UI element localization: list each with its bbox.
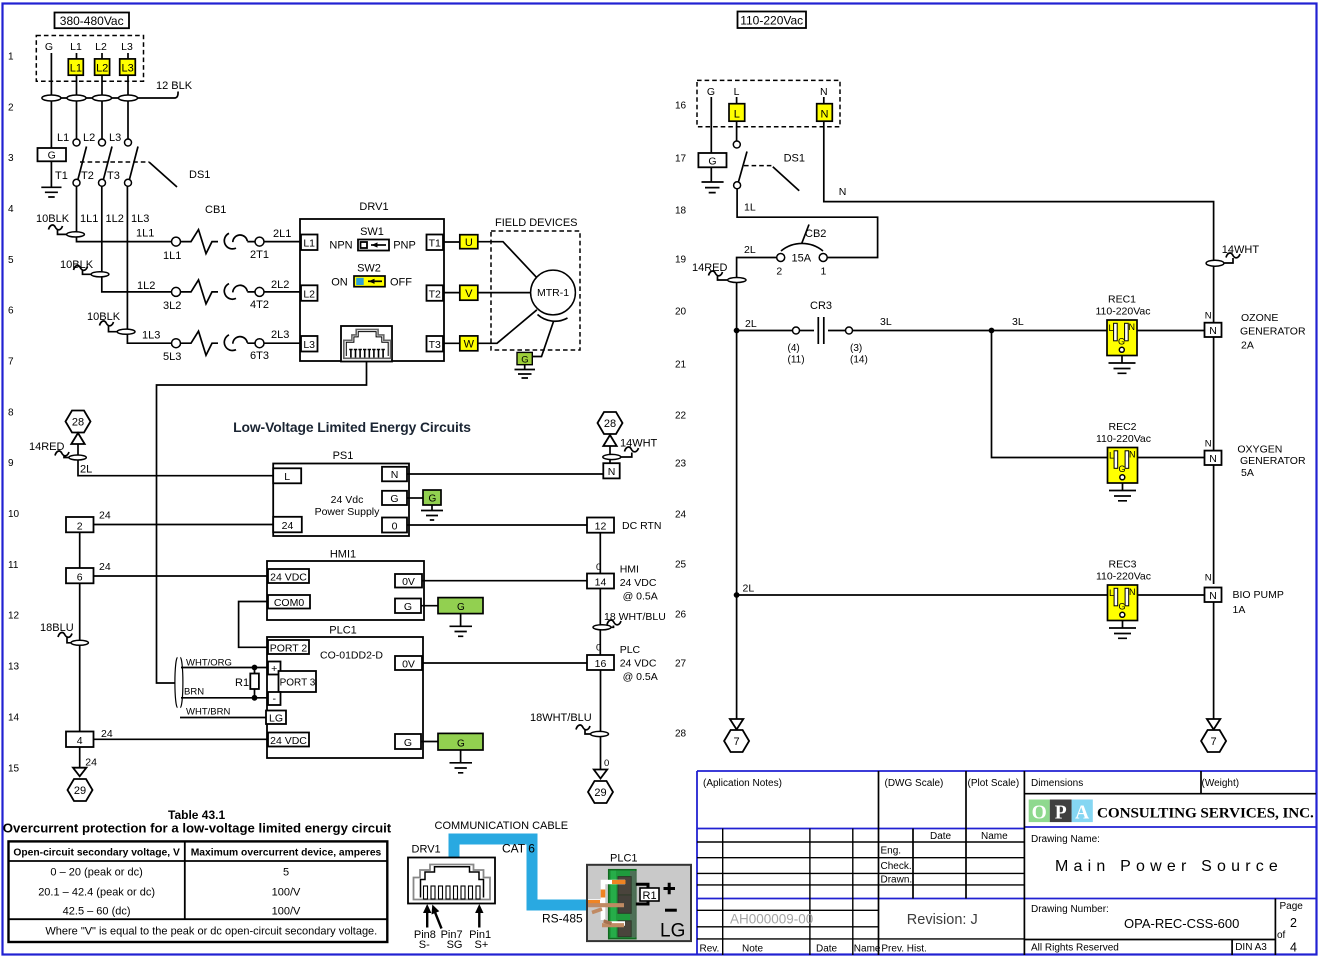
- svg-text:L: L: [1109, 323, 1114, 333]
- svg-text:2A: 2A: [1241, 340, 1254, 352]
- svg-text:S-: S-: [419, 939, 430, 951]
- svg-text:DS1: DS1: [784, 153, 805, 165]
- svg-text:All Rights Reserved: All Rights Reserved: [1031, 943, 1119, 954]
- wire WHT/BRN: [180, 717, 266, 719]
- svg-text:N: N: [1205, 311, 1212, 322]
- wire to N ref: [609, 446, 611, 463]
- svg-text:G: G: [1119, 601, 1126, 611]
- svg-text:26: 26: [675, 610, 687, 621]
- svg-text:N: N: [1129, 322, 1136, 332]
- wire 2L down to ref7: [736, 595, 738, 719]
- DS1 leader: [773, 167, 799, 191]
- svg-text:T2: T2: [429, 288, 441, 300]
- svg-text:Drawn.: Drawn.: [881, 875, 913, 886]
- ground terminal G box: [698, 153, 726, 167]
- svg-text:N: N: [839, 186, 847, 198]
- svg-text:110-220Vac: 110-220Vac: [1096, 571, 1151, 583]
- supply dashed box: [36, 36, 143, 82]
- wire 24 to PLC: [94, 738, 269, 740]
- svg-text:WHT/ORG: WHT/ORG: [186, 658, 232, 669]
- svg-text:SW2: SW2: [357, 263, 381, 275]
- svg-text:2T1: 2T1: [250, 249, 269, 261]
- svg-text:4: 4: [8, 204, 14, 215]
- svg-text:2: 2: [77, 520, 83, 532]
- svg-text:Note: Note: [742, 944, 764, 955]
- ground (PS1): [421, 505, 443, 520]
- wire label 14RED: [29, 441, 86, 460]
- ground (PLC): [450, 750, 473, 773]
- terminal N (ozone): [1205, 311, 1222, 338]
- svg-text:2: 2: [1290, 916, 1297, 930]
- terminal 6: [66, 568, 94, 583]
- voltage label 110-220Vac: [738, 12, 807, 29]
- svg-text:T1: T1: [429, 238, 441, 250]
- svg-text:G: G: [429, 494, 437, 505]
- svg-text:Drawing Number:: Drawing Number:: [1031, 904, 1109, 915]
- RJ45 jack (DRV1): [341, 326, 392, 362]
- pin PORT 3: [279, 671, 317, 692]
- wire W to motor: [478, 310, 537, 344]
- svg-text:+: +: [271, 663, 277, 675]
- svg-text:Power Supply: Power Supply: [315, 506, 381, 518]
- svg-text:L2: L2: [96, 63, 108, 75]
- junction dot: [252, 665, 258, 671]
- svg-text:NPN: NPN: [329, 240, 352, 252]
- svg-text:16: 16: [595, 658, 607, 670]
- svg-text:PLC: PLC: [620, 644, 641, 656]
- svg-text:Low-Voltage Limited Energy Cir: Low-Voltage Limited Energy Circuits: [233, 419, 471, 435]
- svg-text:9: 9: [8, 458, 14, 469]
- wire L2 down: [101, 53, 103, 139]
- svg-text:(Aplication Notes): (Aplication Notes): [703, 778, 782, 789]
- svg-text:T3: T3: [107, 170, 120, 182]
- svg-text:P: P: [1055, 803, 1067, 824]
- relay contact CR3: [737, 317, 1107, 344]
- svg-text:DIN A3: DIN A3: [1235, 942, 1267, 953]
- svg-text:6T3: 6T3: [250, 350, 269, 362]
- svg-text:N: N: [820, 86, 828, 98]
- cable marker ellipse G: [42, 95, 61, 101]
- pin LG: [266, 711, 286, 725]
- svg-text:N: N: [1129, 587, 1136, 597]
- svg-text:SW1: SW1: [360, 226, 384, 238]
- svg-text:6: 6: [77, 571, 83, 583]
- svg-text:15A: 15A: [792, 253, 812, 265]
- svg-text:12 BLK: 12 BLK: [156, 80, 193, 92]
- svg-text:24 Vdc: 24 Vdc: [331, 494, 364, 506]
- wire N run: [824, 121, 1214, 323]
- junction dot: [734, 592, 740, 598]
- svg-text:L2: L2: [303, 288, 315, 300]
- terminal W: [460, 336, 478, 351]
- svg-text:N: N: [1209, 453, 1217, 465]
- comm wire from RJ45: [157, 362, 367, 684]
- row numbers right column: [675, 101, 687, 740]
- svg-text:N: N: [608, 466, 616, 478]
- wire 0 to 12: [407, 524, 587, 526]
- arrow down: [73, 768, 86, 777]
- svg-text:2L2: 2L2: [271, 279, 289, 291]
- wire label 14RED: [692, 262, 746, 283]
- cable 12 BLK run: [51, 92, 178, 99]
- pin 0V: [395, 574, 422, 588]
- svg-text:HMI: HMI: [620, 564, 639, 576]
- svg-text:Overcurrent protection for a l: Overcurrent protection for a low-voltage…: [3, 821, 392, 836]
- svg-text:18: 18: [675, 206, 687, 217]
- arrow up: [71, 433, 84, 444]
- wire REC1-N: [1137, 330, 1205, 332]
- supply dashed box (right): [697, 80, 840, 126]
- svg-text:0: 0: [392, 521, 398, 533]
- svg-text:OPA-REC-CSS-600: OPA-REC-CSS-600: [1124, 916, 1239, 931]
- svg-text:N: N: [1129, 450, 1136, 460]
- svg-text:T3: T3: [429, 339, 441, 351]
- svg-text:(DWG Scale): (DWG Scale): [885, 778, 944, 789]
- svg-text:10: 10: [8, 509, 20, 520]
- svg-text:3L2: 3L2: [163, 300, 181, 312]
- sheet ref 7 (right): [1201, 730, 1226, 752]
- svg-text:(Weight): (Weight): [1202, 778, 1240, 789]
- svg-text:DRV1: DRV1: [412, 844, 441, 856]
- svg-text:L1: L1: [70, 41, 82, 53]
- pin L1: [301, 235, 318, 251]
- svg-text:N: N: [1209, 325, 1217, 337]
- label -: [665, 909, 677, 912]
- svg-text:PS1: PS1: [333, 450, 354, 462]
- wire 3L down: [992, 331, 1108, 458]
- field devices dashed box: [491, 231, 580, 350]
- svg-text:Date: Date: [930, 831, 952, 842]
- svg-text:24: 24: [85, 757, 97, 769]
- svg-text:14: 14: [595, 577, 607, 589]
- junction dot: [734, 328, 740, 334]
- svg-text:L3: L3: [109, 132, 121, 144]
- motor shield arc: [538, 315, 568, 322]
- svg-text:R1: R1: [235, 677, 249, 689]
- pin 24 VDC: [268, 569, 309, 583]
- svg-text:DRV1: DRV1: [359, 201, 388, 213]
- ground (HMI): [450, 614, 473, 637]
- svg-text:L3: L3: [121, 63, 133, 75]
- terminal L2: [95, 59, 110, 75]
- wire N to ref: [407, 473, 603, 475]
- DS1 linkage dashed: [744, 165, 772, 167]
- svg-text:2L: 2L: [80, 464, 92, 476]
- svg-text:G: G: [1119, 464, 1126, 474]
- svg-text:HMI1: HMI1: [330, 549, 356, 561]
- svg-text:LG: LG: [269, 712, 283, 724]
- terminal ref N: [603, 463, 619, 478]
- wire motor to G: [532, 322, 553, 357]
- wire N col down: [1213, 337, 1215, 719]
- svg-text:V: V: [465, 288, 473, 300]
- terminal 2: [66, 517, 94, 532]
- svg-text:13: 13: [8, 662, 20, 673]
- svg-text:L2: L2: [83, 132, 95, 144]
- terminal L: [729, 97, 745, 121]
- svg-text:100/V: 100/V: [272, 906, 301, 918]
- wire REC3-N: [1138, 594, 1205, 596]
- arrow down: [1207, 719, 1220, 730]
- svg-text:Check.: Check.: [881, 861, 912, 872]
- disconnect switch DS1 (right): [733, 121, 747, 189]
- svg-text:G: G: [45, 41, 53, 53]
- svg-text:28: 28: [675, 729, 687, 740]
- pin 0: [382, 518, 407, 533]
- pin L: [273, 468, 301, 483]
- wire 2L2: [264, 291, 301, 293]
- svg-text:L: L: [734, 108, 740, 120]
- wire col 2-6: [79, 532, 81, 568]
- pin -: [268, 692, 281, 705]
- wire 2L3: [264, 342, 301, 344]
- wire U to motor: [478, 242, 537, 278]
- svg-text:1L1: 1L1: [163, 250, 181, 262]
- wire 24: [94, 524, 274, 526]
- svg-text:0V: 0V: [402, 576, 415, 588]
- svg-text:N: N: [391, 469, 399, 481]
- svg-text:380-480Vac: 380-480Vac: [60, 14, 124, 28]
- svg-text:7: 7: [8, 357, 14, 368]
- cable marker ellipse L1: [67, 95, 86, 101]
- svg-text:@ 0.5A: @ 0.5A: [623, 591, 658, 603]
- DS1 linkage dashed: [80, 161, 149, 163]
- wire 4 down: [79, 747, 81, 768]
- svg-text:11: 11: [8, 560, 19, 571]
- svg-text:7: 7: [734, 736, 740, 748]
- svg-text:T1: T1: [55, 170, 68, 182]
- resistor R1: [235, 668, 259, 698]
- svg-text:N: N: [1209, 590, 1217, 602]
- svg-text:18BLU: 18BLU: [40, 622, 74, 634]
- sheet ref 29 (right): [588, 781, 613, 803]
- svg-text:1L3: 1L3: [131, 213, 149, 225]
- wire label 14WHT: [1206, 244, 1259, 266]
- sheet ref 29 (left): [68, 779, 93, 801]
- svg-text:Page: Page: [1280, 901, 1304, 912]
- CAT6 comm cable: [454, 839, 589, 905]
- svg-text:1L3: 1L3: [142, 330, 160, 342]
- svg-text:0: 0: [604, 758, 609, 769]
- svg-text:24 VDC: 24 VDC: [620, 577, 657, 589]
- junction dot: [989, 328, 995, 334]
- svg-text:PORT 3: PORT 3: [280, 678, 316, 689]
- terminal N (bio pump): [1205, 573, 1222, 603]
- svg-text:G: G: [404, 737, 412, 749]
- svg-text:24 VDC: 24 VDC: [620, 658, 657, 670]
- wire 1L2 feed: [102, 186, 172, 292]
- svg-text:20.1 – 42.4 (peak or dc): 20.1 – 42.4 (peak or dc): [38, 886, 155, 898]
- receptacle REC3: [1096, 559, 1151, 639]
- svg-text:O: O: [1032, 803, 1047, 824]
- svg-text:L1: L1: [70, 63, 82, 75]
- pin G: [395, 734, 421, 749]
- svg-text:4: 4: [77, 735, 83, 747]
- pin 24: [273, 517, 302, 533]
- svg-text:LG: LG: [660, 921, 685, 942]
- svg-text:1L2: 1L2: [106, 213, 124, 225]
- svg-text:Prev. Hist.: Prev. Hist.: [881, 944, 926, 955]
- svg-text:CONSULTING SERVICES, INC.: CONSULTING SERVICES, INC.: [1097, 805, 1314, 822]
- svg-text:6: 6: [8, 306, 14, 317]
- terminal G green (HMI): [421, 598, 483, 614]
- pin 24 VDC: [268, 733, 309, 747]
- svg-text:Date: Date: [816, 944, 838, 955]
- svg-text:5: 5: [8, 255, 14, 266]
- svg-text:5L3: 5L3: [163, 351, 181, 363]
- junction dot: [252, 695, 258, 701]
- svg-text:Open-circuit secondary voltage: Open-circuit secondary voltage, V: [13, 847, 180, 858]
- svg-text:N: N: [821, 108, 829, 120]
- arrow down: [594, 770, 607, 779]
- svg-text:Dimensions: Dimensions: [1031, 778, 1083, 789]
- wire G down: [50, 53, 52, 148]
- wire 12 to 14: [599, 533, 601, 574]
- terminal L3: [120, 59, 136, 75]
- pin arrows: [423, 904, 483, 929]
- svg-text:Rev.: Rev.: [700, 944, 720, 955]
- svg-text:0 – 20 (peak or dc): 0 – 20 (peak or dc): [50, 867, 142, 879]
- svg-text:12: 12: [8, 611, 20, 622]
- svg-text:1L: 1L: [744, 202, 756, 214]
- switch SW1: [329, 226, 415, 252]
- svg-text:27: 27: [675, 659, 687, 670]
- receptacle REC1: [1095, 294, 1150, 374]
- wire col 6-4: [79, 583, 81, 731]
- svg-text:4T2: 4T2: [250, 299, 269, 311]
- svg-text:4: 4: [1290, 941, 1297, 955]
- svg-text:L: L: [284, 471, 290, 483]
- terminal U: [460, 235, 478, 249]
- svg-text:WHT/BRN: WHT/BRN: [186, 707, 230, 718]
- label +: [664, 883, 676, 894]
- svg-text:Name: Name: [854, 944, 881, 955]
- sheet ref 7 (left): [724, 730, 749, 752]
- receptacle REC2: [1096, 421, 1151, 501]
- terminal 4: [66, 732, 94, 748]
- svg-text:23: 23: [675, 459, 687, 470]
- wire G: [710, 97, 712, 153]
- wire 2L to REC3: [737, 331, 1108, 596]
- wire BRN: [181, 697, 268, 699]
- terminal G (field): [517, 352, 532, 365]
- svg-text:1: 1: [821, 266, 827, 278]
- svg-text:3L: 3L: [1012, 316, 1024, 328]
- svg-text:17: 17: [675, 154, 687, 165]
- svg-text:W: W: [464, 339, 475, 351]
- row numbers left column: [8, 52, 20, 775]
- svg-text:29: 29: [74, 785, 86, 797]
- twisted pair bundle: [175, 658, 183, 708]
- svg-text:20: 20: [675, 307, 687, 318]
- pin G: [395, 599, 421, 614]
- svg-text:24: 24: [99, 510, 111, 522]
- svg-text:16: 16: [675, 101, 687, 112]
- title block: [697, 771, 1316, 955]
- svg-text:24: 24: [675, 510, 687, 521]
- svg-text:2L1: 2L1: [273, 228, 291, 240]
- svg-text:T2: T2: [81, 170, 94, 182]
- svg-text:25: 25: [675, 560, 687, 571]
- svg-text:19: 19: [675, 255, 687, 266]
- wire label 18BLU: [40, 622, 88, 645]
- pin L3: [301, 336, 318, 352]
- RJ45 plug (DRV1): [408, 858, 495, 904]
- arrow up: [603, 435, 616, 446]
- ground terminal G box: [38, 148, 67, 162]
- terminal 12: [587, 518, 614, 533]
- pin COM0: [268, 595, 310, 609]
- svg-text:A: A: [1075, 803, 1089, 824]
- svg-text:of: of: [1277, 930, 1286, 941]
- circuit breaker CB1: [172, 230, 265, 254]
- svg-text:Maximum overcurrent device, am: Maximum overcurrent device, amperes: [191, 847, 382, 858]
- svg-text:5: 5: [283, 867, 289, 879]
- wire 0V to 16: [422, 662, 587, 664]
- svg-text:110-220Vac: 110-220Vac: [740, 14, 803, 28]
- terminal L1: [68, 59, 83, 75]
- svg-text:PNP: PNP: [393, 240, 416, 252]
- svg-text:(Plot Scale): (Plot Scale): [968, 778, 1020, 789]
- svg-text:Eng.: Eng.: [881, 846, 902, 857]
- pin T3: [427, 336, 444, 352]
- svg-text:Revision: J: Revision: J: [907, 912, 978, 928]
- pin 0V: [395, 656, 422, 670]
- svg-text:G: G: [457, 739, 465, 750]
- svg-text:MTR-1: MTR-1: [537, 287, 569, 299]
- wire L3 down: [127, 53, 129, 139]
- terminal 14: [587, 574, 614, 589]
- terminal V: [460, 285, 478, 300]
- wire label 10BLK (1): [36, 213, 84, 237]
- svg-text:OZONE: OZONE: [1241, 312, 1278, 324]
- switch SW2: [331, 263, 412, 289]
- svg-text:COMMUNICATION CABLE: COMMUNICATION CABLE: [435, 820, 569, 832]
- svg-text:L3: L3: [303, 339, 315, 351]
- svg-text:PORT 2: PORT 2: [270, 642, 308, 654]
- svg-text:110-220Vac: 110-220Vac: [1096, 433, 1151, 445]
- svg-text:L: L: [734, 86, 740, 98]
- svg-text:2L: 2L: [744, 244, 756, 256]
- svg-text:-: -: [272, 693, 276, 705]
- cable marker ellipse L2: [93, 95, 112, 101]
- svg-text:OFF: OFF: [390, 277, 412, 289]
- svg-text:24: 24: [282, 520, 294, 532]
- wire 2L1: [264, 241, 301, 243]
- svg-text:AH000009-00: AH000009-00: [730, 912, 813, 927]
- wire 0V to 14: [422, 580, 587, 582]
- svg-text:12: 12: [595, 521, 607, 533]
- svg-text:0V: 0V: [402, 658, 415, 670]
- svg-text:R1: R1: [643, 890, 657, 902]
- svg-text:Drawing Name:: Drawing Name:: [1031, 834, 1100, 845]
- svg-text:CB2: CB2: [805, 228, 826, 240]
- pin N: [382, 467, 407, 482]
- svg-text:(14): (14): [850, 355, 868, 366]
- ground symbol left: [41, 161, 61, 197]
- svg-text:FIELD DEVICES: FIELD DEVICES: [495, 217, 578, 229]
- wire label 18 WHT/BLU: [593, 611, 666, 630]
- sheet ref 28 (left): [66, 411, 91, 433]
- svg-text:G: G: [708, 155, 716, 167]
- cable marker ellipse L3: [119, 95, 138, 101]
- svg-text:L1: L1: [57, 132, 69, 144]
- pin T2: [427, 285, 444, 301]
- svg-text:BIO PUMP: BIO PUMP: [1233, 589, 1284, 601]
- PLC1 terminal connector: [587, 865, 691, 942]
- circuit breaker CB2: [777, 225, 828, 262]
- svg-text:8: 8: [8, 407, 14, 418]
